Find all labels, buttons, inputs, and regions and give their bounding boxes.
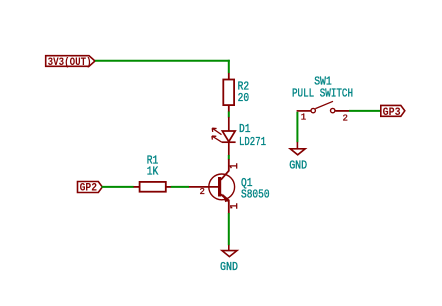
svg-text:LD271: LD271	[239, 136, 266, 149]
svg-text:D1: D1	[239, 123, 251, 136]
wire D1 to Q1 collector	[228, 155, 230, 160]
global label GP2	[78, 182, 103, 193]
D1 light arrows	[212, 128, 222, 142]
resistor R2	[223, 73, 234, 112]
ground symbol (Q1 emitter)	[222, 245, 237, 257]
Q1 pin 1 (collector)	[230, 163, 237, 168]
svg-text:3V3(OUT): 3V3(OUT)	[48, 57, 92, 69]
wire GP2 to R1	[102, 186, 134, 188]
global label GP3	[381, 105, 405, 116]
wire R1 to Q1 base	[171, 186, 189, 188]
svg-text:GND: GND	[289, 159, 307, 172]
svg-text:PULL SWITCH: PULL SWITCH	[292, 88, 353, 101]
svg-text:GP2: GP2	[80, 183, 98, 195]
svg-text:1K: 1K	[147, 166, 159, 179]
svg-text:GND: GND	[220, 261, 238, 274]
resistor R1	[134, 182, 172, 192]
wire SW1 pin1 down to GND	[296, 112, 298, 143]
wire SW1 pin2 to GP3	[349, 110, 381, 112]
Q1 pin 3 (emitter)	[230, 203, 237, 209]
LED D1	[222, 117, 236, 156]
svg-text:S8050: S8050	[241, 188, 270, 201]
global label 3V3(OUT)	[46, 56, 95, 67]
svg-text:1: 1	[301, 113, 306, 123]
wire R2 to D1	[228, 112, 230, 118]
wire Q1 emitter to GND	[228, 213, 230, 245]
svg-text:GP3: GP3	[383, 107, 401, 119]
wire corner down to R2	[228, 60, 230, 73]
svg-text:2: 2	[343, 114, 348, 124]
svg-text:2: 2	[200, 187, 205, 197]
switch SW1	[297, 101, 349, 113]
ground symbol (SW1)	[290, 142, 305, 155]
wire 3V3 to R2 top (horizontal)	[95, 60, 230, 62]
transistor Q1	[189, 159, 235, 213]
svg-text:20: 20	[238, 92, 250, 105]
